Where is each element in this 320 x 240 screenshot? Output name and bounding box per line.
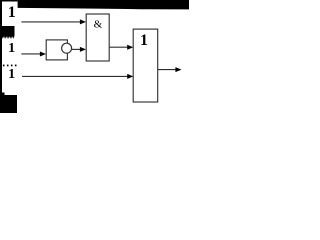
output wire bbox=[158, 69, 176, 71]
wire input1 to AND gate bbox=[21, 21, 80, 23]
inverter negation bubble bbox=[62, 43, 72, 53]
svg-text:&: & bbox=[94, 18, 103, 30]
wire input3 to OR gate bbox=[22, 75, 128, 77]
AND gate bbox=[86, 14, 109, 61]
svg-text:1: 1 bbox=[8, 4, 16, 21]
inverter gate box bbox=[46, 40, 67, 60]
svg-text:1: 1 bbox=[8, 41, 15, 56]
wire AND gate to OR gate bbox=[110, 46, 129, 48]
OR gate (tall box labeled 1) bbox=[133, 29, 158, 102]
wire input2 to inverter bbox=[21, 53, 41, 55]
svg-text:1: 1 bbox=[140, 32, 148, 49]
svg-text:1: 1 bbox=[8, 67, 15, 82]
wire inverter to AND gate bbox=[72, 48, 80, 50]
